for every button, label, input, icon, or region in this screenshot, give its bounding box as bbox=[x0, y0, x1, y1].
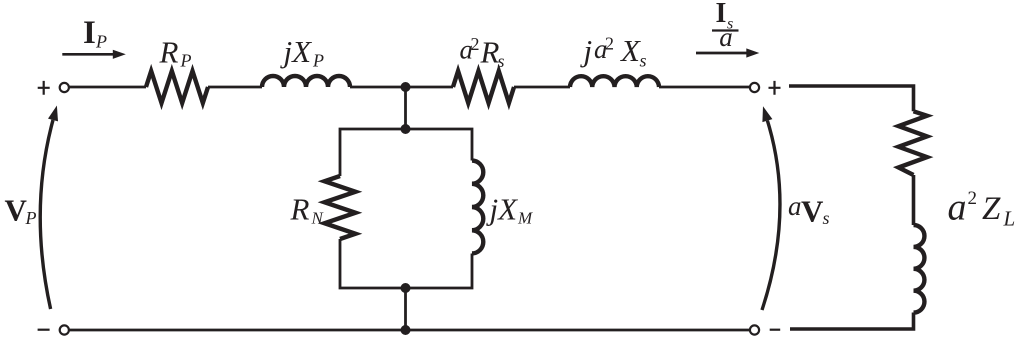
svg-text:P: P bbox=[95, 32, 107, 52]
svg-text:L: L bbox=[1003, 207, 1016, 231]
svg-text:2: 2 bbox=[605, 33, 614, 53]
svg-text:2: 2 bbox=[968, 188, 978, 209]
svg-text:j: j bbox=[580, 33, 593, 68]
svg-text:P: P bbox=[312, 51, 324, 71]
svg-text:I: I bbox=[83, 15, 96, 51]
svg-text:a: a bbox=[948, 187, 967, 229]
svg-text:R: R bbox=[290, 192, 310, 227]
svg-text:Z: Z bbox=[982, 191, 1001, 227]
svg-text:V: V bbox=[5, 193, 28, 228]
svg-text:s: s bbox=[640, 51, 647, 71]
svg-text:s: s bbox=[498, 51, 505, 71]
svg-text:s: s bbox=[823, 208, 830, 228]
svg-text:2: 2 bbox=[471, 34, 480, 54]
svg-text:a: a bbox=[788, 191, 802, 221]
svg-text:N: N bbox=[311, 209, 325, 228]
svg-text:P: P bbox=[180, 51, 192, 71]
svg-text:X: X bbox=[619, 33, 641, 68]
svg-text:R: R bbox=[159, 35, 179, 70]
svg-text:R: R bbox=[480, 35, 500, 70]
svg-text:jX: jX bbox=[486, 192, 519, 227]
svg-text:V: V bbox=[801, 193, 824, 228]
svg-text:M: M bbox=[517, 209, 533, 228]
svg-text:a: a bbox=[719, 22, 733, 52]
svg-text:P: P bbox=[25, 208, 37, 228]
svg-text:jX: jX bbox=[280, 34, 313, 69]
